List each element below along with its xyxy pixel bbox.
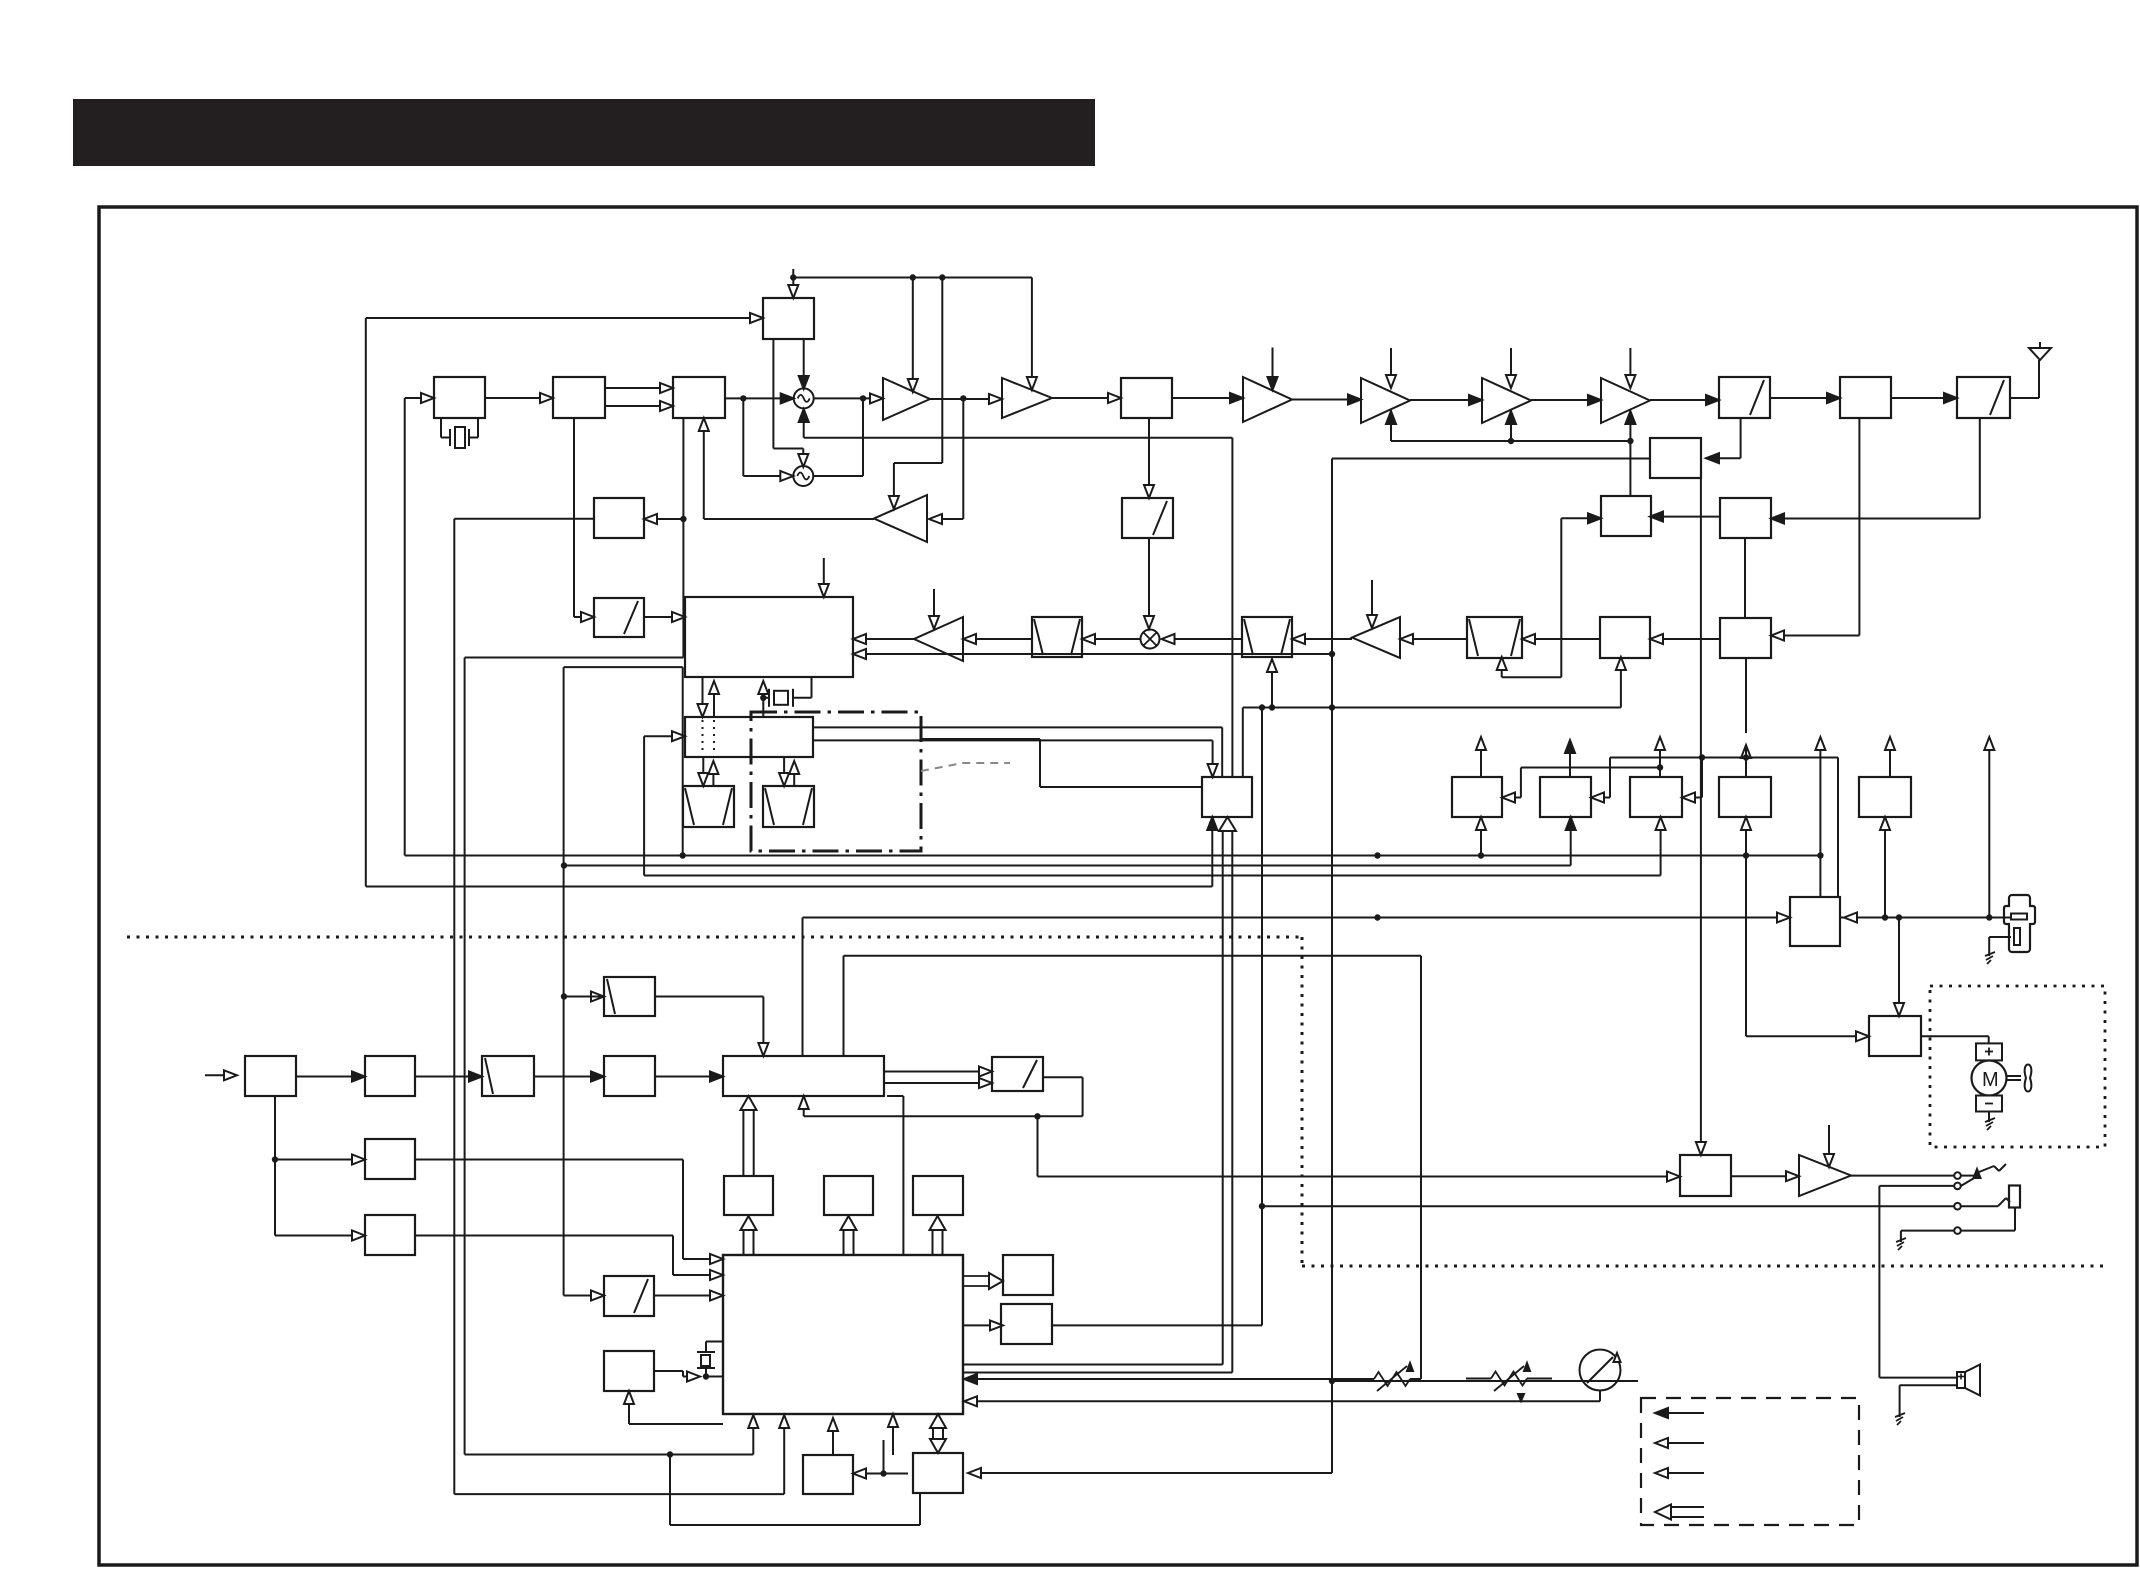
svg-text:M: M [1982,1069,1999,1091]
